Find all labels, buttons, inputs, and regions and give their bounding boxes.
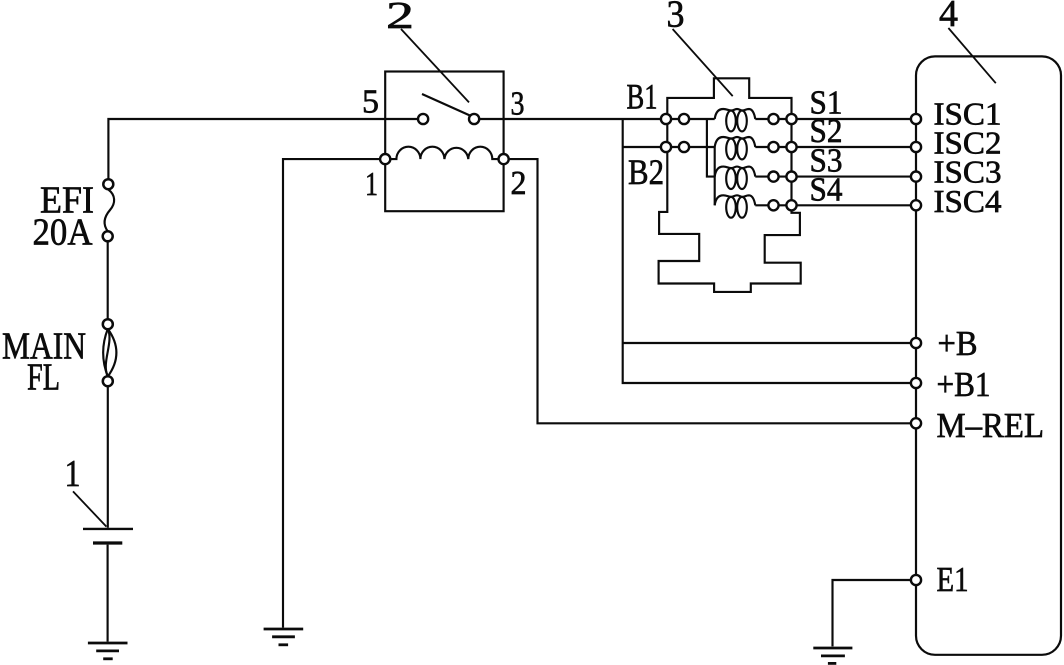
ECU 4 box — [916, 56, 1061, 654]
stepper coil W1 — [715, 109, 756, 131]
svg-text:+B1: +B1 — [937, 366, 991, 404]
wire: relay pin3 to ISC valve B1 — [479, 118, 661, 120]
svg-text:1: 1 — [65, 453, 81, 495]
svg-text:2: 2 — [511, 165, 527, 202]
wire: coil W2 to ISC2 — [755, 146, 911, 148]
relay coil pin 2 — [499, 154, 509, 164]
relay 2 box — [385, 72, 503, 212]
svg-text:S4: S4 — [810, 172, 843, 209]
relay coil pin 1 — [380, 154, 390, 164]
svg-text:5: 5 — [362, 84, 379, 121]
svg-text:B1: B1 — [627, 77, 658, 117]
relay contact pin 3 — [469, 114, 479, 124]
relay switch lever — [422, 94, 470, 116]
svg-text:20A: 20A — [33, 211, 94, 253]
wire: relay pin1 to ground — [283, 159, 380, 627]
leader line to battery — [73, 491, 106, 526]
terminal circles B1 row — [661, 114, 671, 124]
wire: +B branch — [623, 342, 911, 344]
internal wire: row1 to row3 coil — [707, 119, 715, 177]
terminal circles S4 row — [768, 200, 778, 210]
svg-text:2: 2 — [386, 0, 414, 37]
wire: E1 to ground — [833, 580, 912, 646]
svg-text:B2: B2 — [628, 152, 664, 192]
ECU terminal E1 — [911, 575, 921, 585]
wire: MAIN FL to battery — [107, 386, 109, 528]
svg-text:+B: +B — [938, 325, 978, 363]
coil S1 row: feed stubs — [671, 118, 715, 120]
svg-text:M–REL: M–REL — [937, 407, 1045, 445]
ground (relay coil) — [264, 628, 304, 631]
wire: EFI fuse to MAIN FL — [107, 241, 109, 319]
relay contact pin 5 — [418, 114, 428, 124]
terminal circles B2 row — [661, 142, 671, 152]
fusible link MAIN FL — [103, 319, 113, 329]
terminal circles S1 row — [768, 114, 778, 124]
ECU terminal +B1 — [911, 378, 921, 388]
ground (E1) — [813, 647, 852, 650]
svg-text:4: 4 — [939, 0, 958, 35]
svg-text:FL: FL — [27, 356, 60, 398]
stepper coil W4 — [715, 195, 756, 217]
svg-text:E1: E1 — [937, 561, 969, 599]
ISC valve 3 body outline — [659, 78, 801, 292]
leader line from 4 — [948, 28, 995, 83]
wire: coil W4 to ISC4 — [755, 204, 911, 206]
stepper coil W2 — [715, 137, 756, 159]
svg-text:3: 3 — [511, 86, 525, 123]
fuse EFI 20A (element symbol) — [103, 179, 113, 189]
ECU terminal M-REL — [911, 418, 921, 428]
terminal circles S2 row — [768, 142, 778, 152]
svg-text:1: 1 — [365, 166, 378, 203]
ECU terminal ISC1 — [911, 114, 921, 124]
internal wire: row2 to row4 coil — [714, 147, 716, 205]
terminal circles S3 row — [768, 172, 778, 182]
coil S2 row: feed stubs — [671, 146, 715, 148]
ground (battery) — [88, 642, 128, 645]
stepper coil W3 — [715, 167, 756, 189]
ECU terminal ISC4 — [911, 200, 921, 210]
ECU terminal ISC3 — [911, 172, 921, 182]
relay coil — [390, 147, 499, 159]
junction vertical: +B / +B1 feed — [623, 119, 911, 383]
svg-text:ISC4: ISC4 — [934, 183, 1002, 219]
svg-text:3: 3 — [667, 0, 685, 36]
wire: relay pin2 to M-REL — [508, 159, 911, 423]
battery 1 — [83, 528, 133, 530]
wire: relay pin5 left to EFI fuse — [108, 119, 418, 180]
ECU terminal +B — [911, 338, 921, 348]
wire: B2 branch — [623, 146, 662, 148]
leader line from 2 — [401, 29, 469, 102]
wire: coil W1 to ISC1 — [755, 118, 911, 120]
ECU terminal ISC2 — [911, 142, 921, 152]
wire: coil W3 to ISC3 — [755, 176, 911, 178]
wire: battery to ground — [107, 545, 109, 642]
leader line from 3 — [673, 29, 733, 96]
